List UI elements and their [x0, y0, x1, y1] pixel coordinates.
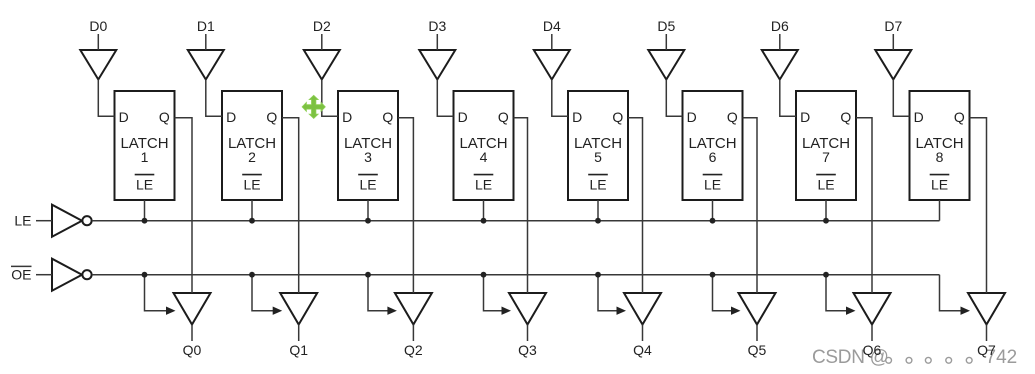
svg-text:3: 3 — [364, 149, 372, 165]
svg-text:D: D — [572, 109, 582, 125]
svg-text:LE: LE — [589, 177, 606, 193]
svg-text:Q6: Q6 — [863, 342, 882, 358]
svg-text:5: 5 — [594, 149, 602, 165]
svg-text:D7: D7 — [884, 18, 902, 34]
svg-text:D6: D6 — [771, 18, 789, 34]
svg-text:D: D — [119, 109, 129, 125]
svg-text:LE: LE — [136, 177, 153, 193]
svg-text:Q: Q — [840, 109, 851, 125]
svg-text:D: D — [914, 109, 924, 125]
svg-text:LE: LE — [243, 177, 260, 193]
svg-text:6: 6 — [709, 149, 717, 165]
svg-text:Q4: Q4 — [633, 342, 652, 358]
svg-text:1: 1 — [141, 149, 149, 165]
svg-text:OE: OE — [11, 267, 31, 283]
svg-text:Q: Q — [727, 109, 738, 125]
svg-text:Q: Q — [382, 109, 393, 125]
svg-text:D: D — [687, 109, 697, 125]
svg-text:Q: Q — [954, 109, 965, 125]
svg-text:Q3: Q3 — [518, 342, 537, 358]
svg-text:LE: LE — [931, 177, 948, 193]
svg-text:D4: D4 — [543, 18, 561, 34]
svg-text:7: 7 — [822, 149, 830, 165]
svg-text:D: D — [800, 109, 810, 125]
svg-text:Q: Q — [266, 109, 277, 125]
svg-text:2: 2 — [248, 149, 256, 165]
svg-text:D1: D1 — [197, 18, 215, 34]
svg-text:LE: LE — [359, 177, 376, 193]
svg-text:Q0: Q0 — [183, 342, 202, 358]
svg-text:LE: LE — [14, 213, 31, 229]
svg-text:LE: LE — [704, 177, 721, 193]
svg-text:Q7: Q7 — [977, 342, 996, 358]
svg-text:D: D — [226, 109, 236, 125]
svg-text:Q: Q — [159, 109, 170, 125]
svg-text:Q1: Q1 — [289, 342, 308, 358]
svg-text:LE: LE — [475, 177, 492, 193]
svg-text:D3: D3 — [428, 18, 446, 34]
svg-text:Q: Q — [612, 109, 623, 125]
svg-text:8: 8 — [936, 149, 944, 165]
svg-text:D5: D5 — [657, 18, 675, 34]
svg-text:D0: D0 — [89, 18, 107, 34]
svg-text:D: D — [342, 109, 352, 125]
svg-text:D: D — [458, 109, 468, 125]
svg-text:D2: D2 — [313, 18, 331, 34]
svg-text:LE: LE — [817, 177, 834, 193]
svg-text:Q: Q — [498, 109, 509, 125]
svg-text:Q2: Q2 — [404, 342, 423, 358]
svg-text:4: 4 — [480, 149, 488, 165]
svg-text:Q5: Q5 — [748, 342, 767, 358]
